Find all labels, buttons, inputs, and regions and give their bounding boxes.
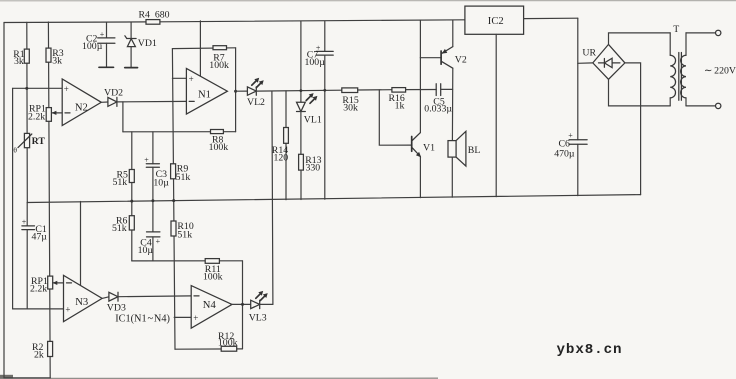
svg-text:N3: N3 [75,297,88,308]
wire UR left vertex [578,62,593,64]
node rail junction R5 column [130,200,133,203]
svg-text:+: + [22,218,27,227]
svg-text:N1: N1 [198,89,211,100]
svg-text:2.2k: 2.2k [30,284,47,295]
node A junction R1/RT [25,87,28,90]
svg-text:+: + [193,313,198,323]
wire rectifier left column with C6 [577,18,579,140]
svg-text:+: + [144,156,149,165]
svg-text:100k: 100k [218,337,238,348]
svg-text:10µ: 10µ [138,245,154,256]
wire left inner vertical (both + inputs) [12,88,14,309]
node N1 output junction [234,90,237,93]
wire V2 base [420,57,441,59]
wire N1 + input [172,77,186,79]
svg-text:100k: 100k [209,142,229,153]
svg-text:N2: N2 [75,102,88,113]
terminal upper [716,30,721,35]
wire N4 output [232,303,251,305]
svg-text:∼ 220V: ∼ 220V [704,65,736,76]
wire top rail left [4,21,146,24]
wire N3 + input [13,308,64,310]
node rail junction C3 column [151,199,154,202]
resistor R14 [272,128,289,164]
resistor R3 [46,48,64,67]
capacitor C1 [22,203,48,309]
wire VD2 to N1 inverting input [117,100,186,103]
svg-text:100k: 100k [203,272,223,283]
svg-text:1k: 1k [395,100,405,111]
transformer T primary [670,24,679,106]
svg-text:BL: BL [468,145,481,156]
svg-text:51k: 51k [112,223,127,234]
svg-text:30k: 30k [343,103,358,114]
capacitor C6 [554,131,587,159]
resistor R7 [209,46,229,71]
wire R15 to R16 [358,89,392,91]
svg-text:3k: 3k [52,56,62,67]
svg-text:120: 120 [274,153,289,164]
node junction C7 column [323,89,326,92]
resistor R9 [171,164,191,183]
svg-text:VD1: VD1 [138,38,157,49]
wire R12 feedback bottom [175,348,243,350]
svg-text:47µ: 47µ [32,231,48,242]
svg-text:ybx8.cn: ybx8.cn [557,342,623,358]
scan edge bottom [0,377,438,379]
svg-text:IC1(N1 ~ N4): IC1(N1 ~ N4) [115,314,170,325]
svg-text:+: + [100,30,105,39]
transformer T secondary [681,33,686,106]
resistor R10 [171,221,194,240]
wire IC2 right to rectifier column [524,17,578,19]
resistor R12 [218,331,238,351]
op-amp N2 [62,79,101,126]
thermistor RT [13,133,45,154]
wire long vertical R9/R10 column [172,49,175,350]
capacitor C3 [144,132,169,232]
capacitor C7 [305,21,334,199]
svg-text:+: + [64,84,69,94]
wire mid rail [27,195,640,203]
node rail junction R9 column [172,199,175,202]
svg-text:2k: 2k [34,349,44,360]
scan edge top [0,0,736,2]
node N4 output junction [241,303,244,306]
wire R1/RT column [26,22,29,202]
node junction VL1 column [300,89,303,92]
wire R7 top feedback [172,47,235,50]
wire V1 collector riser [419,21,421,133]
resistor R13 [299,154,322,173]
wire VL3 to riser [260,303,273,305]
svg-text:RT: RT [32,136,46,147]
wire V1 base drop [379,90,411,145]
op-amp N3 [64,275,103,321]
wire R5/R6 column [131,132,133,261]
svg-text:+: + [65,304,70,314]
svg-text:3k: 3k [14,56,24,67]
wire R13 to rail [300,170,302,199]
transistor V1 [412,133,435,158]
svg-text:51k: 51k [177,229,192,240]
wire feedback right vertical N4 [242,261,244,349]
wire top rail right [160,20,465,22]
wire N2 + input [13,87,63,89]
svg-text:VD3: VD3 [107,302,126,313]
wire UR right vertex down to rail [625,63,641,195]
capacitor C5 [424,84,452,115]
resistor R4 [139,10,170,25]
potentiometer RP1 (lower) [30,276,64,295]
wire R16 to C5 [406,89,437,91]
wire branch down to R8 wire [122,102,124,132]
transistor V2 [441,47,467,69]
svg-text:UR: UR [582,47,596,58]
transformer T core [678,53,680,101]
svg-text:2.2k: 2.2k [28,111,45,122]
svg-text:N4: N4 [203,300,217,311]
svg-text:R4 680: R4 680 [139,10,170,21]
svg-text:T: T [673,24,679,35]
LED VL1 [297,93,322,125]
potentiometer RP1 (upper) [28,104,62,123]
wire feedback right vertical [235,48,237,132]
wire N1 supply from top rail [199,21,201,76]
op-amp N4 [191,286,232,329]
wire V1 emitter to rail [419,157,421,198]
resistor R8 [209,130,229,153]
svg-text:51k: 51k [113,177,128,188]
capacitor C4 [138,232,161,261]
svg-text:100k: 100k [209,60,229,71]
svg-text:0.033µ: 0.033µ [424,104,452,115]
resistor R5 [113,169,135,188]
wire N4 + input [174,316,191,318]
LED VL3 [249,291,268,324]
speaker BL [448,131,480,197]
wire R11 feedback top [132,260,243,262]
svg-text:100µ: 100µ [82,41,103,52]
bridge rectifier UR [582,44,625,79]
resistor R16 [389,88,406,112]
svg-text:IC2: IC2 [488,16,504,27]
wire VD3 to N4 inverting input [118,295,191,298]
svg-text:330: 330 [306,162,321,173]
resistor R2 [32,341,53,360]
resistor R11 [203,259,223,283]
terminal lower [716,103,721,108]
wire VL1 to R13 [300,112,302,155]
wire VL2 to R15 [256,89,342,92]
svg-text:V1: V1 [423,142,435,153]
svg-text:+: + [156,237,161,246]
svg-text:V2: V2 [455,54,467,65]
wire secondary top to terminal [686,32,715,34]
LED VL2 [236,78,265,108]
svg-text:θ: θ [13,146,17,155]
diode VD2 [101,87,123,106]
wire VL3 riser up to VL2 line [272,91,273,304]
resistor R1 [13,49,29,67]
capacitor C2 [82,22,115,67]
IC2 box [465,6,524,34]
svg-text:470µ: 470µ [554,149,575,160]
wire N3 supply from mid rail [80,202,82,286]
wire R14 column [285,91,287,200]
svg-text:VL3: VL3 [249,313,267,324]
wire R8 bottom feedback [123,131,236,133]
svg-text:10µ: 10µ [153,177,169,188]
wire left rail [4,23,50,378]
svg-text:51k: 51k [176,172,191,183]
wire V2 collector drop to speaker [451,68,453,140]
wire UR bottom vertex to primary bottom [609,79,671,106]
wire UR top vertex to primary top [609,33,671,45]
zener diode VD1 [125,22,157,68]
wire IC2 bottom drop [495,34,497,196]
resistor R6 [112,215,134,234]
svg-text:VL1: VL1 [304,114,322,125]
wire VL1/R13 column from top rail [300,22,302,103]
wire R3/RP1/R2 column [48,22,50,378]
resistor R15 [342,88,359,114]
svg-text:VL2: VL2 [247,97,265,108]
svg-text:+: + [189,74,194,84]
svg-text:100µ: 100µ [305,57,326,68]
diode VD3 [102,292,126,313]
wire V2 emitter riser [452,20,454,46]
op-amp N1 [186,68,227,114]
svg-text:VD2: VD2 [104,87,123,98]
wire secondary bottom to terminal [686,105,715,107]
